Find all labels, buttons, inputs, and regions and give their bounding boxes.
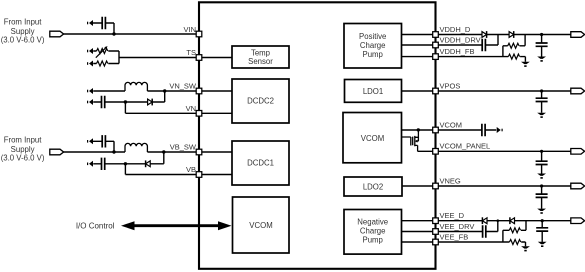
- svg-text:VDDH_D: VDDH_D: [440, 25, 471, 34]
- svg-text:Positive: Positive: [359, 32, 386, 41]
- svg-text:Pump: Pump: [363, 236, 384, 245]
- svg-text:(3.0 V-6.0 V): (3.0 V-6.0 V): [1, 36, 45, 45]
- svg-text:Charge: Charge: [360, 41, 386, 50]
- svg-text:(3.0 V-6.0 V): (3.0 V-6.0 V): [1, 154, 45, 163]
- svg-text:Charge: Charge: [360, 227, 386, 236]
- svg-text:VDDH_DRV: VDDH_DRV: [440, 35, 481, 44]
- svg-text:VCOM: VCOM: [361, 134, 384, 143]
- svg-text:LDO2: LDO2: [363, 183, 383, 192]
- svg-text:Negative: Negative: [357, 218, 388, 227]
- svg-text:VCOM: VCOM: [249, 221, 272, 230]
- svg-text:VEE_FB: VEE_FB: [440, 232, 469, 241]
- svg-text:VCOM: VCOM: [440, 120, 463, 129]
- svg-text:From Input: From Input: [4, 18, 43, 27]
- svg-text:VEE_D: VEE_D: [440, 211, 465, 220]
- svg-text:LDO1: LDO1: [363, 87, 383, 96]
- svg-text:I/O Control: I/O Control: [76, 222, 115, 231]
- svg-text:VPOS: VPOS: [440, 81, 461, 90]
- svg-text:VN: VN: [186, 104, 196, 113]
- svg-text:VB_SW: VB_SW: [170, 143, 197, 152]
- svg-text:From Input: From Input: [4, 136, 43, 145]
- svg-text:DCDC1: DCDC1: [247, 159, 274, 168]
- svg-text:VIN: VIN: [183, 25, 196, 34]
- svg-text:VN_SW: VN_SW: [169, 82, 197, 91]
- svg-text:VNEG: VNEG: [440, 176, 461, 185]
- svg-text:VCOM_PANEL: VCOM_PANEL: [440, 142, 491, 151]
- svg-text:Sensor: Sensor: [248, 57, 273, 66]
- svg-text:TS: TS: [186, 48, 196, 57]
- svg-text:DCDC2: DCDC2: [247, 97, 274, 106]
- svg-text:VEE_DRV: VEE_DRV: [440, 222, 475, 231]
- svg-text:Pump: Pump: [363, 50, 384, 59]
- svg-text:VDDH_FB: VDDH_FB: [440, 47, 475, 56]
- svg-text:VB: VB: [186, 165, 196, 174]
